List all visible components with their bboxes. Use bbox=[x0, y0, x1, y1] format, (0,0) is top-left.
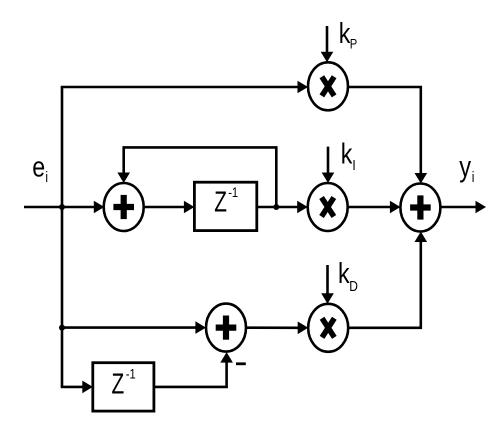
label y_i bbox=[459, 150, 474, 185]
node: derivative branch junction bbox=[59, 325, 65, 331]
wire: Z1 output to multiplier kI bbox=[257, 201, 308, 214]
wire: kP output to output summer bbox=[348, 87, 427, 184]
wire: S3 to multiplier kD bbox=[246, 322, 308, 335]
wire: kD output to output summer bbox=[348, 232, 427, 328]
block Z2 (z^-1) bbox=[93, 363, 154, 411]
wire: branch elbow to Z2 bbox=[61, 381, 93, 394]
wire: top branch to multiplier kP bbox=[61, 81, 308, 94]
wire: output line bbox=[440, 201, 486, 214]
svg-text:Z: Z bbox=[112, 368, 125, 400]
label kP bbox=[339, 16, 358, 52]
multiplier U1 (kP) bbox=[308, 62, 348, 110]
summing junction S1 bbox=[104, 183, 144, 231]
label kI bbox=[341, 137, 356, 173]
node: input branch junction bbox=[59, 204, 65, 210]
summing junction S3 (difference) bbox=[206, 304, 246, 352]
wire: branch vertical bbox=[61, 87, 64, 387]
svg-text:I: I bbox=[352, 157, 355, 174]
node: integrator feedback junction bbox=[273, 204, 279, 210]
label kD bbox=[338, 256, 358, 294]
svg-text:i: i bbox=[472, 169, 475, 186]
label e_i bbox=[32, 150, 48, 186]
svg-text:Z: Z bbox=[214, 186, 227, 218]
svg-text:D: D bbox=[349, 278, 358, 295]
wire: kI output to output summer bbox=[348, 201, 401, 214]
wire: input line bbox=[24, 201, 104, 214]
svg-text:i: i bbox=[45, 169, 48, 186]
multiplier U3 (kD) bbox=[308, 304, 348, 352]
svg-text:P: P bbox=[350, 36, 357, 51]
wire: bottom branch to summer S3 bbox=[62, 321, 206, 334]
svg-text:k: k bbox=[341, 137, 353, 170]
wire: S1 output to Z1 bbox=[144, 201, 195, 214]
multiplier U2 (kI) bbox=[308, 183, 348, 231]
svg-text:y: y bbox=[459, 150, 471, 183]
summing junction S2 (output) bbox=[400, 184, 440, 232]
svg-text:-1: -1 bbox=[126, 366, 136, 381]
wire: Z2 output to summer S3 bbox=[154, 352, 233, 387]
svg-text:-1: -1 bbox=[228, 185, 238, 200]
svg-text:e: e bbox=[32, 150, 45, 183]
block Z1 (z^-1) bbox=[194, 182, 256, 230]
wire: kI gain input arrow bbox=[322, 147, 335, 183]
label minus sign bbox=[236, 362, 246, 365]
wire: kD gain input arrow bbox=[321, 265, 334, 304]
wire: kP gain input arrow bbox=[321, 26, 334, 62]
wire: integrator feedback loop bbox=[117, 147, 276, 207]
